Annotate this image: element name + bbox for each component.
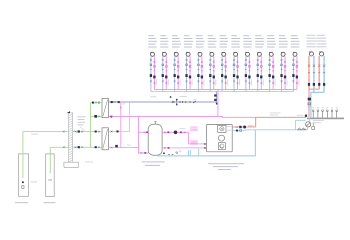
heating return main (pale violet) — [151, 91, 294, 93]
pink label boxes upper — [190, 127, 197, 129]
suction well label — [15, 202, 28, 203]
tank label — [142, 161, 165, 162]
green riser vertical — [90, 103, 92, 148]
riser 2 — [160, 35, 169, 91]
heat pump box — [207, 125, 233, 152]
pale vertical header to HX2 top — [108, 102, 129, 131]
hp top module — [218, 125, 226, 132]
hp hot riser (salmon) — [255, 117, 257, 127]
pipe labels under mains — [150, 95, 156, 98]
fittings on header — [179, 101, 182, 103]
well supply main (green) — [23, 131, 102, 133]
HP return pipe from tank (pink) — [162, 147, 218, 149]
riser 4 — [184, 35, 193, 91]
pressure unit label — [313, 119, 324, 122]
wall column (hatched) — [69, 113, 73, 162]
column footing — [64, 162, 79, 168]
fittings on hot wire — [236, 126, 238, 128]
return header (pale violet-blue) — [108, 101, 216, 103]
expansion line (salmon) — [256, 116, 306, 118]
collector valve — [308, 103, 311, 105]
riser 7 — [220, 35, 229, 91]
hp source loop (light blue) — [189, 130, 256, 156]
valves on drop pair — [214, 94, 216, 96]
manifold stub 1 — [312, 107, 314, 117]
return drop wire — [216, 92, 218, 102]
tank vent stub — [154, 121, 156, 124]
column cap mark — [67, 111, 70, 113]
dirt trap triangles — [298, 128, 305, 130]
hp label — [208, 163, 244, 164]
blue return line — [245, 129, 295, 132]
drop to HP pipes — [188, 132, 190, 144]
manifold stub 5 — [331, 107, 333, 117]
riser 11 — [267, 35, 276, 91]
manifold stub 6 — [336, 107, 338, 117]
HX2 right bottom wire — [108, 147, 138, 149]
red collector — [309, 89, 319, 117]
pump on header — [176, 99, 178, 105]
riser R1 — [306, 35, 316, 93]
riser 13 — [291, 35, 300, 91]
hp evaporator module — [218, 143, 225, 150]
buffer tank — [148, 124, 162, 155]
riser 6 — [208, 35, 217, 91]
HX1 left bottom wire (green) — [91, 115, 103, 117]
marks on HP pipes — [204, 143, 206, 149]
flow main jog to expansion level — [218, 116, 256, 119]
manifold stub 3 — [322, 107, 324, 117]
fittings on green mains — [63, 130, 100, 132]
well return main (green) — [50, 146, 102, 148]
injection well pipe (green) — [49, 147, 51, 173]
tank left upper port — [138, 131, 148, 133]
manifold stub 4 — [326, 107, 328, 117]
valve on expansion line — [305, 115, 307, 117]
blue collector — [311, 92, 324, 117]
marks on header near HX1 — [111, 101, 113, 103]
pressure unit piping — [309, 118, 311, 122]
riser 5 — [196, 35, 205, 91]
pink feed drop to tank bottom port — [138, 117, 148, 153]
pressure unit circle — [306, 122, 311, 127]
small vessel — [312, 126, 315, 129]
hp hot supply wire (salmon) — [232, 126, 256, 128]
valve X on header — [172, 101, 174, 103]
main riser bank: 13 heating circuits — [148, 35, 299, 91]
injection well label — [44, 202, 56, 203]
district label — [78, 115, 86, 118]
hp compressor circle — [219, 135, 225, 141]
riser 8 — [231, 35, 240, 91]
tank drain fittings — [163, 153, 165, 155]
collector node — [308, 98, 311, 101]
suction well riser (green) — [22, 132, 24, 179]
plate heat exchanger HX2 — [102, 128, 108, 150]
heating flow main (pink) from HX1 — [108, 116, 217, 118]
footing label — [85, 161, 93, 164]
submersible pump — [22, 181, 24, 183]
riser 9 — [243, 35, 252, 91]
riser 1 — [148, 35, 157, 91]
riser R2 — [317, 35, 327, 93]
pipe size label under green main — [31, 133, 38, 136]
flow drop wire (pink) — [217, 89, 219, 116]
riser 12 — [279, 35, 288, 91]
pink label boxes — [190, 140, 197, 142]
HX1 left top wire (green) — [91, 102, 103, 104]
hp cold wire to expansion (blue) — [232, 130, 245, 132]
riser 3 — [172, 35, 181, 91]
plate heat exchanger HX1 — [102, 98, 108, 117]
tank right pump wire — [162, 131, 188, 133]
heating supply main (pink) — [154, 88, 297, 90]
HP flow pipe (pink) — [189, 143, 219, 145]
manifold stub 2 — [317, 107, 319, 117]
suction well — [19, 154, 29, 196]
expansion line labels — [270, 112, 281, 115]
pink vertical header to HX2 bottom circuit — [120, 102, 122, 148]
manifold bar — [307, 118, 344, 120]
injection well — [46, 154, 55, 197]
underline pipe (light blue, under tank) — [157, 155, 189, 157]
riser 10 — [255, 35, 264, 91]
